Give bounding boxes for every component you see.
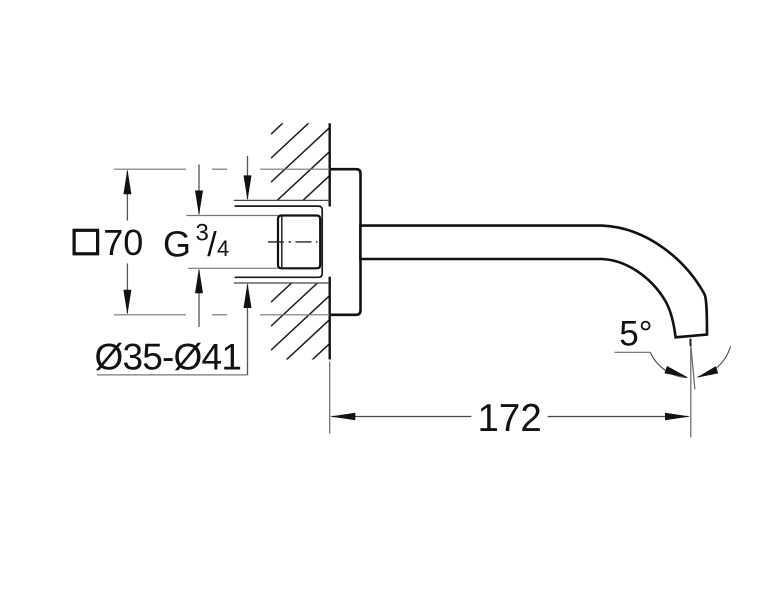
svg-text:4: 4 [217,236,229,261]
svg-text:/: / [207,226,217,264]
svg-text:Ø35-Ø41: Ø35-Ø41 [95,337,242,378]
thread extension lines [186,215,278,217]
label sq70 [74,230,98,254]
spout body [360,226,707,338]
flange [329,169,361,315]
dim hole: arrows [247,156,249,199]
svg-text:172: 172 [478,397,542,440]
dim sq70: extension lines [114,169,330,315]
dim G3/4: arrows [198,164,200,214]
thread inner line [281,217,283,268]
hole lines (Ø41) [234,199,330,201]
shank Ø35 outline [235,206,323,277]
svg-text:5°: 5° [619,315,652,354]
wall face line [329,123,331,206]
dim 172 [690,339,692,438]
dim sq70: dimension line and arrows [126,171,128,221]
svg-text:G: G [163,224,191,265]
centerline [268,241,318,243]
thread G3/4 box [278,216,320,269]
wall line extension (172 left ext) [329,362,331,434]
svg-text:70: 70 [103,222,143,263]
wall hatching [271,79,331,446]
